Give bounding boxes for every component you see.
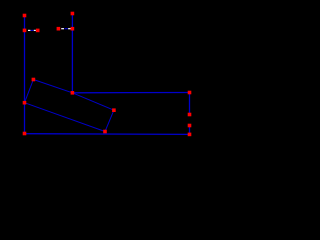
node P2 — [32, 78, 36, 82]
node T3 — [36, 29, 40, 33]
node T2 — [23, 29, 27, 33]
node P5 — [103, 130, 107, 134]
wire: right vertical edge N4-N5 — [189, 93, 191, 115]
wire: edge P1-P2 — [25, 80, 34, 103]
wire: edge P4-P5 — [105, 110, 114, 131]
node T4 — [71, 12, 75, 16]
wire: edge P3-N4 horizontal — [72, 92, 189, 94]
node N5 — [188, 113, 192, 117]
wire: dashed edge T2-T3 — [28, 29, 36, 31]
wire: second vertical bus T4-T5-P3 — [71, 14, 73, 93]
wire: right vertical edge N6-N7 — [189, 126, 191, 135]
node N6 — [188, 124, 192, 128]
wire: edge P3-P4 — [72, 93, 114, 110]
wire: bottom horizontal edge P7-N7 — [25, 133, 190, 136]
node T5 — [71, 27, 75, 31]
node N4 — [188, 91, 192, 95]
node T1 — [23, 14, 27, 18]
wire: left vertical bus T1-T2-P1-P7 — [24, 16, 26, 134]
wire: dashed edge T6-T5 — [61, 28, 70, 30]
wire: edge P1-P5 — [25, 103, 106, 132]
wire: edge P2-P3 — [33, 80, 72, 93]
node T6 — [57, 27, 61, 31]
node P4 — [112, 108, 116, 112]
node N7 — [188, 133, 192, 137]
node P1 — [23, 101, 27, 105]
node P3 — [71, 91, 75, 95]
node P7 — [23, 132, 27, 136]
